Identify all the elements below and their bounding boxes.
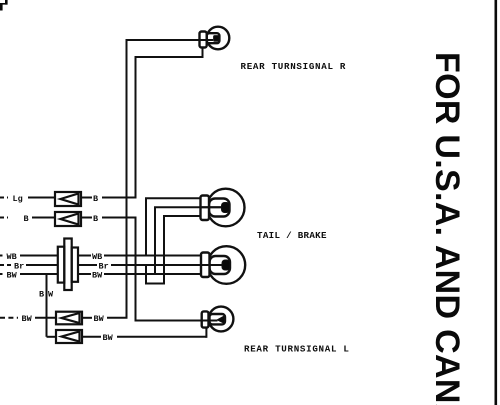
wire: Br to connector J1 xyxy=(26,264,58,266)
wire: BW to connector J1 xyxy=(20,273,58,275)
svg-text:B: B xyxy=(93,194,98,204)
svg-text:WB: WB xyxy=(92,252,102,262)
svg-text:BW: BW xyxy=(94,314,105,324)
wire C: tail/brake upper bottom lead xyxy=(146,215,201,284)
wire: vertical V2 upper (to row1) xyxy=(135,56,137,199)
lamp U4: rear turnsignal L xyxy=(202,307,234,332)
wire: row1 B to node V2 xyxy=(102,197,136,199)
page border right xyxy=(495,0,498,405)
wire: WB row entry stub xyxy=(0,255,3,257)
svg-text:WB: WB xyxy=(7,252,17,262)
svg-text:TAIL / BRAKE: TAIL / BRAKE xyxy=(257,230,327,241)
wire: BW row entry stub xyxy=(0,273,3,275)
svg-text:Lg: Lg xyxy=(13,194,23,204)
wire: BW to node V1 bottom xyxy=(107,317,128,319)
wire: Br row entry stub (dashed) xyxy=(0,264,13,266)
connector D (bullet) xyxy=(56,330,82,343)
svg-text:B: B xyxy=(39,289,44,299)
wire: lamp R top lead (net B/BW) xyxy=(127,39,208,41)
wire: lamp L bottom lead xyxy=(205,328,207,338)
svg-text:REAR TURNSIGNAL R: REAR TURNSIGNAL R xyxy=(241,61,347,72)
lamp U1: rear turnsignal R xyxy=(200,27,230,50)
svg-text:REAR TURNSIGNAL L: REAR TURNSIGNAL L xyxy=(244,344,350,355)
wire: drop to connector D xyxy=(47,336,57,338)
wire: row1 entry stub (dashed) xyxy=(0,197,8,199)
wire: Br row to lamp U3 centre lead xyxy=(111,264,222,266)
svg-text:B: B xyxy=(24,214,29,224)
connector B (bullet) xyxy=(55,212,81,226)
wire: lamp R bottom lead down-left xyxy=(136,47,203,58)
svg-text:B: B xyxy=(93,214,98,224)
wire: row2 B to node V2 lower xyxy=(102,217,136,219)
corner scan artifact top-left xyxy=(0,0,8,11)
wire: row2 entry stub (dashed) xyxy=(0,217,8,219)
lamp U3: tail/brake lower xyxy=(201,246,245,284)
rotated title FOR U.S.A. AND CANADA xyxy=(428,52,466,405)
svg-text:BW: BW xyxy=(92,270,103,280)
wire: row1 Lg to connector A xyxy=(28,197,55,199)
wire: J1 to label Br xyxy=(78,264,97,266)
wire: J1 to label WB xyxy=(78,255,91,257)
wire: J1 to label BW xyxy=(78,273,91,275)
svg-text:W: W xyxy=(48,289,54,299)
wire: BW row to lamp U3 bottom lead xyxy=(104,273,201,275)
wire: BW to connector C via junction xyxy=(35,317,56,319)
wire B: tail/brake upper centre lead xyxy=(155,206,222,274)
svg-text:BW: BW xyxy=(103,333,114,343)
wire: connector B to label B xyxy=(81,217,92,219)
connector J1 (3-pole) xyxy=(58,239,78,291)
wire: BW drop xyxy=(46,274,48,337)
wire: connector A to label B xyxy=(81,197,92,199)
wire: vertical V1 from lamp R down to BW net xyxy=(126,39,128,318)
wire: connector C to label BW xyxy=(82,317,92,319)
wire: vertical V2 lower (row2 down to lamp L) xyxy=(136,217,219,321)
connector A (bullet) xyxy=(55,192,81,206)
wire: connector D to label BW xyxy=(82,336,101,338)
wire: WB to connector J1 xyxy=(20,255,58,257)
lamp U2: tail/brake upper xyxy=(201,189,245,227)
connector C (bullet) xyxy=(56,312,82,325)
wire: row2 B to connector B xyxy=(32,217,55,219)
wire: BW to lamp U4 bottom lead xyxy=(117,336,206,338)
wire: lower BW entry stub (dashed) xyxy=(0,317,18,319)
svg-text:BW: BW xyxy=(7,270,18,280)
svg-text:BW: BW xyxy=(22,314,33,324)
wire: WB row to lamp U3 top lead xyxy=(104,255,201,257)
wire A: tail/brake upper top lead xyxy=(146,197,201,255)
